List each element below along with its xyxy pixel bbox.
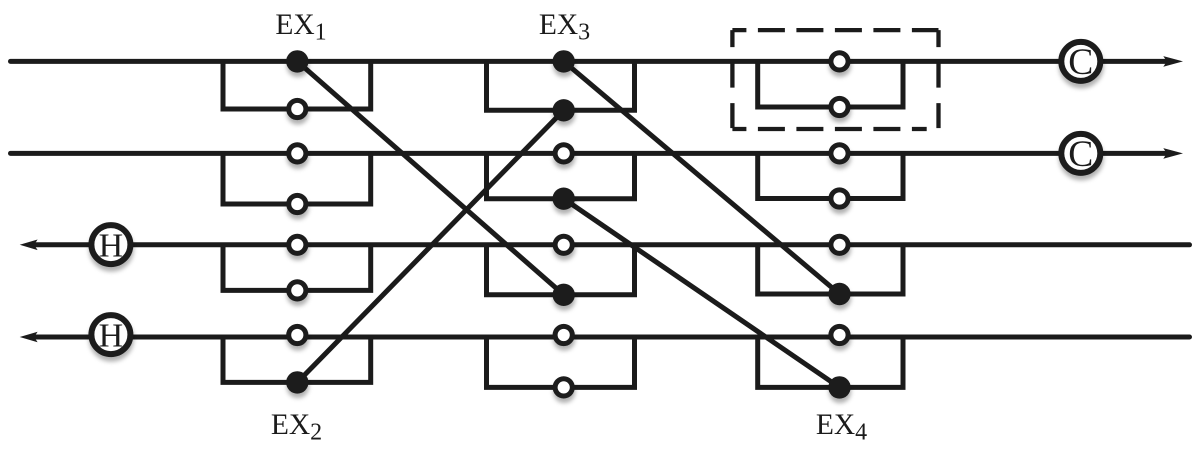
- node: open circle, column 1, loop 2: [289, 195, 306, 212]
- node: open circle, column 1, loop 3: [289, 282, 306, 299]
- wire: bypass loop of stream 1 at column 2: [487, 61, 635, 110]
- node: open circle, column 3, loop 1: [831, 98, 848, 115]
- node: open circle, column 2, stream 2: [555, 145, 572, 162]
- utility: heater H on stream 4: [91, 315, 130, 354]
- node: filled circle, column 3, loop 4: [828, 376, 850, 398]
- wire: EX4 match line: [564, 199, 840, 388]
- svg-text:H: H: [99, 317, 124, 354]
- node: open circle, column 2, stream 4: [555, 326, 572, 343]
- arrow: right arrowhead of cold stream 2 line: [1163, 148, 1183, 159]
- svg-text:C: C: [1068, 134, 1093, 175]
- arrow: left arrowhead of hot stream 4 line: [20, 332, 38, 343]
- wire: bypass loop of stream 3 at column 2: [487, 245, 635, 295]
- wire: hot stream 4 line: [36, 335, 1190, 340]
- wire: EX2 match line: [297, 110, 563, 382]
- node: open circle, column 1, stream 4: [289, 326, 306, 343]
- wire: bypass loop of stream 3 at column 3: [758, 245, 903, 294]
- wire: bypass loop of stream 3 at column 1: [223, 245, 371, 291]
- wire: bypass loop of stream 2 at column 3: [758, 153, 903, 198]
- wire: bypass loop of stream 4 at column 3: [758, 337, 903, 387]
- wire: bypass loop of stream 1 at column 1: [223, 61, 371, 109]
- node: open circle, column 3, stream 3: [831, 236, 848, 253]
- node: filled circle, column 2, loop 1: [553, 99, 575, 121]
- node: open circle, column 1, loop 1: [289, 100, 306, 117]
- wire: bypass loop of stream 2 at column 1: [223, 153, 371, 204]
- node: filled circle, column 1, loop 4: [286, 371, 308, 393]
- node: open circle, column 3, stream 2: [831, 145, 848, 162]
- node: filled circle, column 3, loop 3: [828, 283, 850, 305]
- wire: EX1 match line: [297, 61, 563, 294]
- label: EX3: [539, 9, 590, 46]
- node: open circle, column 1, stream 2: [289, 145, 306, 162]
- arrow: left arrowhead of hot stream 3 line: [20, 240, 38, 251]
- node: open circle, column 3, stream 1: [831, 53, 848, 70]
- node: filled circle, column 1, stream 1: [286, 50, 308, 72]
- node: open circle, column 3, loop 2: [831, 190, 848, 207]
- wire: bypass loop of stream 4 at column 1: [223, 337, 371, 382]
- node: filled circle, column 2, stream 1: [553, 50, 575, 72]
- wire: cold stream 2 line: [11, 151, 1168, 156]
- node: filled circle, column 2, loop 2: [553, 188, 575, 210]
- arrow: right arrowhead of cold stream 1 line: [1163, 56, 1183, 67]
- utility: cooler C on stream 2: [1061, 134, 1100, 175]
- node: open circle, column 1, stream 3: [289, 236, 306, 253]
- dashed box around column 3 bypass of stream 1: [732, 30, 938, 129]
- svg-text:H: H: [99, 227, 124, 264]
- node: open circle, column 2, loop 4: [555, 379, 572, 396]
- wire: bypass loop of stream 4 at column 2: [487, 337, 635, 387]
- label: EX4: [816, 409, 867, 446]
- node: open circle, column 2, stream 3: [555, 236, 572, 253]
- node: open circle, column 3, stream 4: [831, 326, 848, 343]
- wire: bypass loop of stream 1 at column 3: [758, 61, 903, 107]
- svg-text:C: C: [1068, 42, 1093, 83]
- utility: cooler C on stream 1: [1061, 42, 1100, 83]
- wire: EX3 match line: [564, 61, 840, 294]
- node: filled circle, column 2, loop 3: [553, 284, 575, 306]
- utility: heater H on stream 3: [91, 225, 130, 264]
- label: EX1: [275, 9, 326, 46]
- wire: cold stream 1 line: [11, 59, 1168, 64]
- wire: bypass loop of stream 2 at column 2: [487, 153, 635, 198]
- wire: hot stream 3 line: [36, 242, 1190, 247]
- label: EX2: [271, 409, 322, 446]
